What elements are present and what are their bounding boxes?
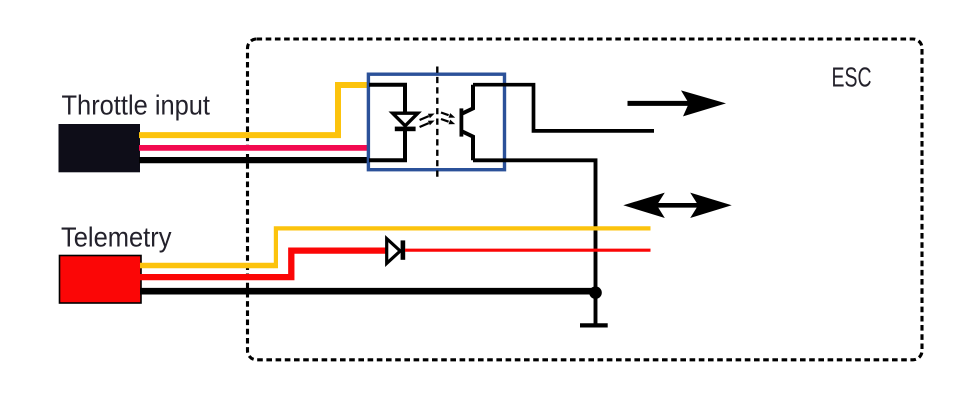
diode D2 triangle (387, 239, 401, 264)
light arrow upper-left segment (420, 114, 435, 121)
op-to box U1 outline (blue) (368, 74, 504, 170)
wire throttle +V (magenta) (139, 145, 369, 151)
node ground junction dot (589, 286, 602, 299)
wire telemetry signal thick (yellow) (140, 263, 274, 269)
connector J2 telemetry plug (red) (60, 256, 142, 304)
connector J1 throttle input plug (59, 124, 141, 172)
wire throttle signal (yellow) (139, 85, 369, 135)
wire telemetry +V thick (red) (140, 251, 387, 278)
diode D1 LED cathode bar (395, 127, 416, 132)
wire telemetry +V thin (red) (405, 249, 651, 252)
svg-text:Throttle input: Throttle input (62, 90, 211, 121)
isolation dashed line inside U1 (436, 67, 438, 180)
ground symbol (580, 323, 608, 327)
svg-text:Telemetry: Telemetry (61, 221, 172, 252)
light arrow lower-right segment (441, 119, 455, 124)
wire telemetry ground (black) (140, 288, 596, 295)
ESC enclosure dashed border (248, 39, 923, 360)
wire telemetry signal riser and thin run (yellow) (276, 228, 651, 268)
svg-text:ESC: ESC (832, 61, 872, 92)
transistor Q1 emitter (462, 132, 473, 161)
wire throttle ground (black) (139, 157, 369, 163)
wire LED cathode (inside U1) (369, 131, 405, 160)
label Telemetry (61, 221, 172, 252)
diode D1 LED triangle (393, 113, 418, 126)
label Throttle input (62, 90, 211, 121)
transistor Q1 collector (462, 85, 473, 114)
transistor Q1 base bar (459, 108, 463, 136)
light arrow upper-right segment (441, 113, 455, 118)
arrow bidirectional telemetry (623, 193, 731, 218)
wire emitter to ground node (473, 160, 596, 323)
wire collector output (473, 85, 654, 131)
diode D2 cathode bar (401, 240, 406, 259)
light arrow lower-left segment (420, 121, 435, 128)
wire LED anode (inside U1) (369, 85, 405, 113)
arrow output signal (628, 90, 727, 116)
label ESC (832, 61, 872, 92)
